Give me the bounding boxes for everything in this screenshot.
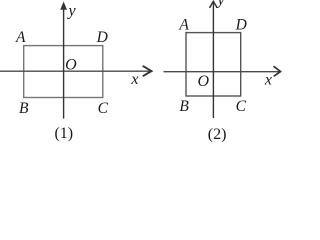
svg-text:B: B xyxy=(179,98,189,115)
svg-text:A: A xyxy=(178,17,189,34)
svg-text:x: x xyxy=(130,71,138,88)
svg-text:D: D xyxy=(96,29,108,46)
svg-text:y: y xyxy=(66,3,76,20)
svg-text:C: C xyxy=(98,100,109,117)
svg-text:B: B xyxy=(19,100,29,117)
svg-text:C: C xyxy=(236,98,247,115)
svg-text:x: x xyxy=(264,71,272,88)
svg-text:y: y xyxy=(215,0,225,9)
svg-text:O: O xyxy=(65,56,77,73)
svg-text:A: A xyxy=(15,29,26,46)
svg-text:(2): (2) xyxy=(208,126,227,142)
svg-text:D: D xyxy=(235,16,247,33)
svg-text:O: O xyxy=(198,73,210,90)
svg-text:(1): (1) xyxy=(54,125,73,142)
